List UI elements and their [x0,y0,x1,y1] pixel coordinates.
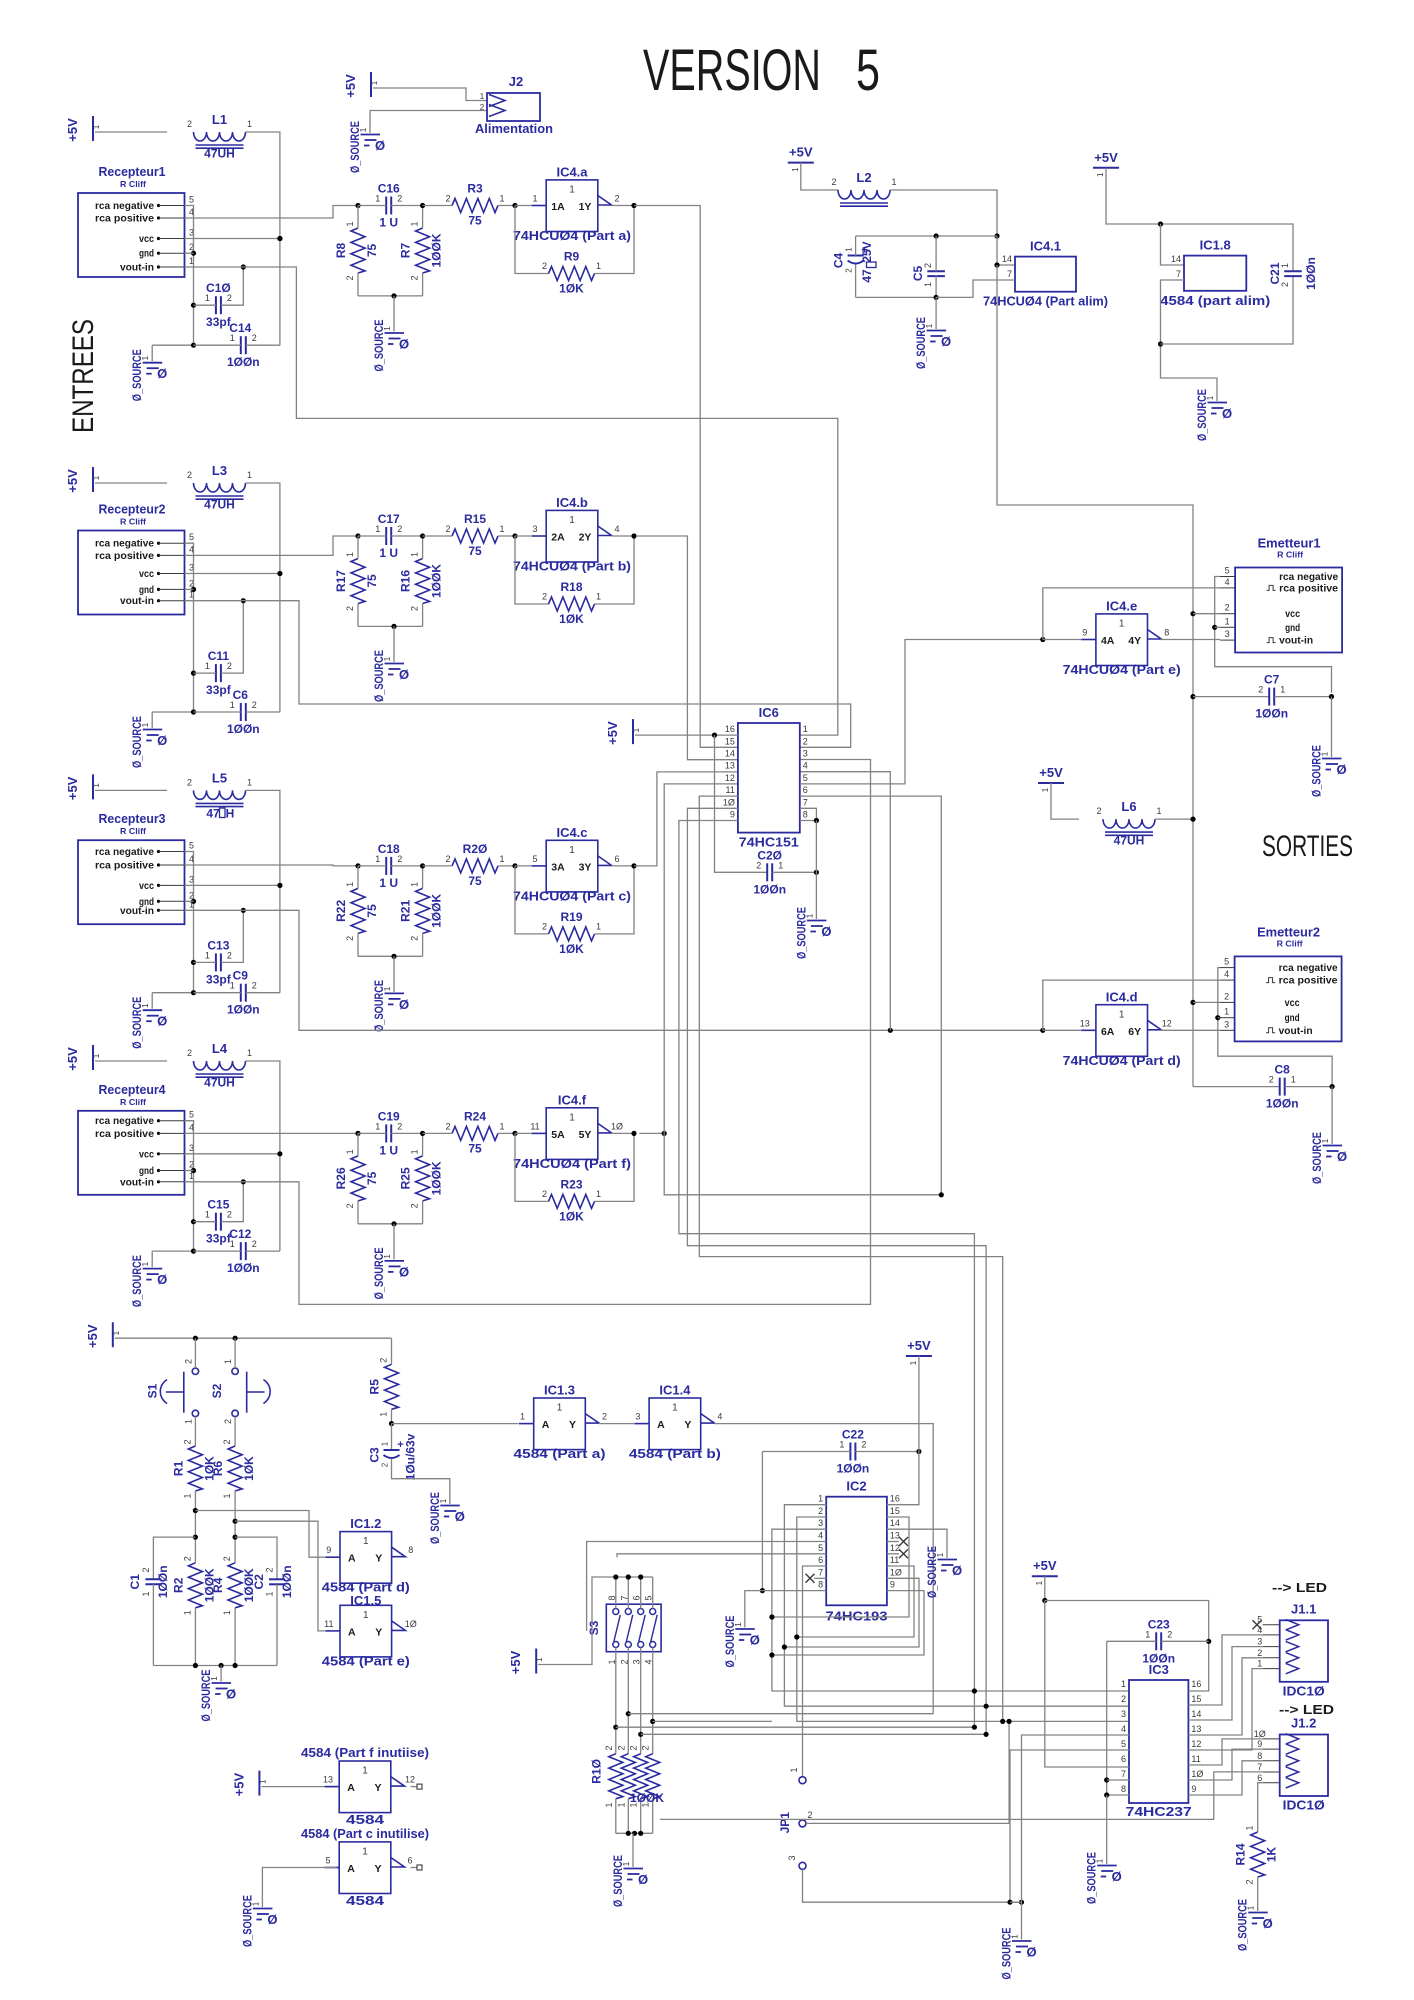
svg-text:1: 1 [891,177,896,187]
svg-text:1: 1 [182,1493,192,1498]
svg-text:74HCUØ4 (Part b): 74HCUØ4 (Part b) [513,560,631,574]
svg-text:6Y: 6Y [1128,1026,1141,1038]
svg-text:R2Ø: R2Ø [463,842,488,856]
svg-text:5: 5 [1225,566,1230,576]
svg-text:2: 2 [803,736,808,746]
svg-text:1 U: 1 U [379,216,398,230]
svg-text:Ø_SOURCE: Ø_SOURCE [611,1855,625,1907]
svg-text:VERSION: VERSION [643,38,821,103]
svg-text:Ø: Ø [226,1687,236,1702]
svg-text:2: 2 [345,1203,355,1208]
svg-text:C9: C9 [233,969,249,983]
svg-text:5: 5 [856,38,880,103]
svg-text:IC2: IC2 [846,1479,866,1494]
svg-text:S2: S2 [210,1383,224,1398]
svg-text:1: 1 [1119,619,1125,630]
svg-text:47UH: 47UH [204,147,235,161]
svg-text:2: 2 [265,1567,275,1572]
svg-text:1ØØn: 1ØØn [227,1261,260,1275]
svg-text:2: 2 [756,860,761,870]
svg-text:1: 1 [1224,1007,1229,1017]
svg-text:Ø: Ø [267,1912,277,1927]
svg-text:C8: C8 [1275,1063,1291,1077]
svg-text:6: 6 [818,1555,823,1565]
svg-text:IC4.f: IC4.f [558,1092,587,1107]
svg-text:1 U: 1 U [379,546,398,560]
svg-text:1: 1 [230,1239,235,1249]
svg-text:Y: Y [374,1863,381,1875]
svg-text:47: 47 [206,807,220,821]
svg-text:4584 (part alim): 4584 (part alim) [1160,293,1270,308]
svg-text:11: 11 [726,785,735,795]
svg-text:2A: 2A [551,532,565,544]
svg-text:Ø: Ø [1112,1869,1122,1884]
svg-text:1: 1 [1041,787,1050,792]
svg-text:IC4.d: IC4.d [1106,989,1138,1004]
svg-text:1ØØn: 1ØØn [280,1565,294,1598]
svg-text:R14: R14 [1234,1843,1248,1865]
svg-text:R19: R19 [560,910,582,924]
svg-text:5: 5 [189,1110,194,1120]
svg-text:1: 1 [345,552,355,557]
svg-text:Ø: Ø [638,1872,648,1887]
svg-text:2: 2 [614,194,619,204]
svg-text:4584: 4584 [346,1893,385,1908]
svg-text:2: 2 [222,1439,232,1444]
svg-text:rca negative: rca negative [95,538,154,550]
svg-text:2: 2 [445,854,450,864]
svg-text:J1.2: J1.2 [1291,1716,1316,1731]
svg-text:Y: Y [684,1419,691,1431]
svg-text:Ø: Ø [399,997,409,1012]
svg-text:4: 4 [717,1412,722,1422]
svg-text:R22: R22 [334,900,348,922]
svg-text:47UH: 47UH [204,1076,235,1090]
svg-text:13: 13 [725,761,735,771]
svg-text:1: 1 [632,727,641,732]
svg-text:3: 3 [818,1518,823,1528]
svg-text:74HCUØ4 (Part c): 74HCUØ4 (Part c) [513,889,631,903]
svg-text:2: 2 [227,950,232,960]
svg-text:Ø: Ø [157,733,167,748]
svg-text:1: 1 [247,777,252,787]
svg-text:2: 2 [629,1745,639,1750]
svg-text:3: 3 [803,749,808,759]
svg-text:1: 1 [205,293,210,303]
svg-text:8: 8 [1257,1751,1262,1761]
svg-text:13: 13 [323,1775,333,1785]
svg-text:Ø_SOURCE: Ø_SOURCE [372,320,386,372]
svg-text:1: 1 [362,1847,368,1858]
svg-text:2: 2 [410,606,420,611]
svg-text:vout-in: vout-in [1279,1025,1313,1037]
svg-text:IC1.4: IC1.4 [659,1383,691,1398]
svg-text:1ØK: 1ØK [242,1456,256,1481]
svg-text:IC6: IC6 [759,705,779,720]
svg-text:74HCUØ4 (Part d): 74HCUØ4 (Part d) [1063,1054,1181,1068]
svg-text:1: 1 [1156,806,1161,816]
svg-text:12: 12 [1191,1739,1201,1749]
svg-text:16: 16 [725,724,735,734]
svg-text:rca positive: rca positive [95,860,154,872]
svg-text:rca positive: rca positive [1279,582,1338,594]
svg-text:Ø: Ø [1263,1916,1273,1931]
svg-text:1ØØn: 1ØØn [1266,1097,1299,1111]
svg-text:7: 7 [818,1567,823,1577]
svg-text:R1Ø: R1Ø [590,1759,604,1784]
svg-text:2: 2 [187,1048,192,1058]
svg-text:2: 2 [1167,1629,1172,1639]
svg-text:Recepteur3: Recepteur3 [99,811,166,826]
svg-text:Ø_SOURCE: Ø_SOURCE [1000,1928,1014,1980]
svg-text:2: 2 [187,119,192,129]
svg-text:1: 1 [363,1610,369,1621]
svg-text:1: 1 [596,1189,601,1199]
svg-text:75: 75 [365,904,379,918]
svg-text:2: 2 [397,854,402,864]
svg-text:74HCUØ4 (Part f): 74HCUØ4 (Part f) [513,1157,631,1171]
svg-text:A: A [348,1553,356,1565]
svg-text:1: 1 [182,1610,192,1615]
svg-text:1: 1 [205,950,210,960]
svg-text:R2: R2 [171,1577,185,1593]
svg-text:8: 8 [818,1580,823,1590]
svg-text:J1.1: J1.1 [1291,1601,1316,1616]
svg-text:2: 2 [616,1745,626,1750]
svg-text:rca positive: rca positive [1279,975,1338,987]
svg-text:2: 2 [345,606,355,611]
svg-text:3: 3 [635,1412,640,1422]
svg-text:R Cliff: R Cliff [1277,550,1303,560]
svg-text:A: A [657,1419,665,1431]
svg-text:1: 1 [375,194,380,204]
svg-text:1: 1 [596,261,601,271]
svg-text:75: 75 [365,574,379,588]
svg-text:1: 1 [370,80,379,85]
svg-text:1: 1 [230,333,235,343]
svg-text:Ø_SOURCE: Ø_SOURCE [1195,389,1209,441]
svg-text:2: 2 [542,592,547,602]
svg-text:2: 2 [923,263,933,268]
svg-text:1: 1 [909,1360,918,1365]
svg-text:rca negative: rca negative [95,200,154,212]
svg-text:+5V: +5V [65,469,80,493]
svg-text:7: 7 [1176,269,1181,279]
svg-text:IC4.c: IC4.c [556,825,587,840]
svg-text:1: 1 [1119,1009,1125,1020]
svg-text:7: 7 [1121,1769,1126,1779]
svg-text:74HC193: 74HC193 [826,1608,888,1623]
svg-text:2: 2 [1258,685,1263,695]
svg-text:Recepteur2: Recepteur2 [99,502,166,517]
svg-text:1: 1 [381,1441,390,1446]
svg-text:L3: L3 [212,463,227,478]
svg-text:1ØØK: 1ØØK [430,1161,444,1195]
svg-text:Ø_SOURCE: Ø_SOURCE [1236,1899,1250,1951]
svg-text:1: 1 [410,882,420,887]
svg-text:Ø_SOURCE: Ø_SOURCE [372,1247,386,1299]
svg-text:2: 2 [223,1419,233,1424]
svg-text:A: A [348,1626,356,1638]
svg-text:Ø_SOURCE: Ø_SOURCE [199,1670,213,1722]
svg-text:1: 1 [183,1419,193,1424]
svg-text:9: 9 [890,1580,895,1590]
svg-text:Ø_SOURCE: Ø_SOURCE [130,716,144,768]
svg-text:Ø_SOURCE: Ø_SOURCE [130,997,144,1049]
svg-text:1: 1 [230,700,235,710]
svg-text:R8: R8 [334,243,348,259]
svg-text:vout-in: vout-in [120,262,154,274]
svg-text:SORTIES: SORTIES [1262,830,1353,863]
svg-text:vout-in: vout-in [120,905,154,917]
svg-text:6: 6 [1257,1773,1262,1783]
svg-text:4: 4 [803,761,808,771]
svg-text:1ØØn: 1ØØn [753,882,786,896]
svg-text:L2: L2 [856,170,871,185]
svg-text:1: 1 [363,1536,369,1547]
svg-text:1A: 1A [551,201,565,213]
svg-text:1: 1 [92,783,101,788]
svg-text:C2: C2 [252,1574,266,1590]
svg-text:IC4.1: IC4.1 [1030,239,1061,254]
svg-text:1ØØn: 1ØØn [227,722,260,736]
svg-text:1: 1 [112,1330,121,1335]
svg-text:2: 2 [604,1745,614,1750]
svg-text:Ø: Ø [821,924,831,939]
svg-text:2: 2 [410,1203,420,1208]
svg-text:2: 2 [182,1556,192,1561]
svg-text:1: 1 [1245,1825,1255,1830]
svg-text:1: 1 [1035,1580,1044,1585]
svg-text:1: 1 [230,981,235,991]
svg-text:3Y: 3Y [579,861,592,873]
svg-text:1Ø: 1Ø [405,1619,417,1629]
svg-text:1ØØn: 1ØØn [837,1462,870,1476]
svg-text:1: 1 [205,661,210,671]
svg-text:5: 5 [189,841,194,851]
svg-text:gnd: gnd [1285,1012,1300,1024]
svg-text:R Cliff: R Cliff [120,179,146,189]
svg-text:1: 1 [1145,1629,1150,1639]
svg-text:75: 75 [365,244,379,258]
svg-text:R Cliff: R Cliff [120,517,146,527]
svg-text:3: 3 [1257,1637,1262,1647]
svg-text:15: 15 [1191,1694,1201,1704]
svg-text:9: 9 [730,810,735,820]
svg-text:2: 2 [397,1121,402,1131]
svg-text:1: 1 [1280,685,1285,695]
svg-text:S3: S3 [587,1620,601,1635]
svg-text:1: 1 [596,921,601,931]
svg-text:1: 1 [569,1112,575,1123]
svg-text:12: 12 [405,1775,415,1785]
svg-text:33pf: 33pf [206,683,232,697]
svg-text:1: 1 [778,860,783,870]
svg-text:+5V: +5V [605,721,620,745]
svg-text:IC4.e: IC4.e [1106,599,1137,614]
svg-text:Alimentation: Alimentation [475,121,553,136]
svg-text:1Ø: 1Ø [1254,1729,1266,1739]
svg-text:4584 (Part a): 4584 (Part a) [514,1447,606,1461]
svg-text:JP1: JP1 [778,1812,792,1834]
svg-text:3: 3 [787,1855,797,1860]
svg-text:1: 1 [499,854,504,864]
svg-text:2: 2 [445,194,450,204]
svg-text:1: 1 [803,724,808,734]
svg-text:1: 1 [604,1802,614,1807]
svg-text:1: 1 [596,592,601,602]
svg-text:1: 1 [480,92,485,101]
svg-text:8: 8 [1121,1784,1126,1794]
svg-text:Ø: Ø [455,1509,465,1524]
svg-text:J2: J2 [509,74,523,89]
svg-text:2: 2 [542,921,547,931]
svg-text:Ø_SOURCE: Ø_SOURCE [428,1492,442,1544]
svg-text:Ø: Ø [399,667,409,682]
svg-text:14: 14 [1171,254,1181,264]
svg-text:Ø_SOURCE: Ø_SOURCE [1310,1132,1324,1184]
svg-text:R6: R6 [211,1461,225,1477]
svg-text:Ø: Ø [375,138,385,153]
svg-text:2: 2 [831,177,836,187]
svg-text:1: 1 [345,882,355,887]
svg-text:R15: R15 [464,512,486,526]
svg-text:2: 2 [252,1239,257,1249]
svg-text:9: 9 [1191,1784,1196,1794]
svg-text:14: 14 [1002,254,1012,264]
svg-text:2: 2 [227,1210,232,1220]
svg-text:75: 75 [468,214,482,228]
svg-text:vcc: vcc [139,1148,154,1160]
svg-text:2: 2 [183,1359,193,1364]
svg-text:4584 (Part f inutiise): 4584 (Part f inutiise) [301,1745,429,1760]
svg-text:2: 2 [187,470,192,480]
svg-text:1: 1 [839,1440,844,1450]
svg-text:5A: 5A [551,1129,565,1141]
svg-text:R7: R7 [399,243,413,259]
svg-text:vout-in: vout-in [1279,635,1313,647]
svg-text:1: 1 [1121,1679,1126,1689]
svg-text:Ø_SOURCE: Ø_SOURCE [1085,1852,1099,1904]
svg-text:1: 1 [247,119,252,129]
svg-text:rca negative: rca negative [95,1115,154,1127]
svg-text:1ØØn: 1ØØn [1142,1651,1175,1665]
svg-text:11: 11 [1191,1754,1200,1764]
svg-text:2: 2 [397,194,402,204]
svg-text:R3: R3 [467,182,483,196]
svg-text:+5V: +5V [508,1650,523,1674]
svg-text:1ØK: 1ØK [559,282,584,296]
svg-text:13: 13 [1080,1018,1090,1028]
svg-text:2: 2 [1121,1694,1126,1704]
svg-text:4: 4 [1225,577,1230,587]
svg-text:1Ø: 1Ø [890,1567,902,1577]
svg-text:1ØØn: 1ØØn [156,1565,170,1598]
svg-text:2: 2 [1257,1648,1262,1658]
svg-text:2: 2 [381,1462,390,1467]
svg-text:Ø: Ø [952,1563,962,1578]
svg-text:Ø_SOURCE: Ø_SOURCE [240,1895,254,1947]
svg-text:ENTREES: ENTREES [67,319,100,433]
svg-text:C7: C7 [1264,673,1280,687]
svg-text:4584 (Part c inutilise): 4584 (Part c inutilise) [301,1826,429,1841]
svg-text:1 U: 1 U [379,876,398,890]
svg-text:+5V: +5V [1039,765,1063,780]
svg-text:12: 12 [890,1543,900,1553]
svg-text:74HC237: 74HC237 [1126,1804,1192,1819]
svg-text:1K: 1K [1265,1846,1279,1862]
svg-text:Ø: Ø [399,337,409,352]
svg-text:11: 11 [530,1121,539,1131]
svg-text:1: 1 [410,552,420,557]
svg-text:Ø_SOURCE: Ø_SOURCE [130,349,144,401]
svg-text:gnd: gnd [139,1165,154,1177]
svg-text:R25: R25 [399,1167,413,1189]
svg-text:1ØK: 1ØK [559,1209,584,1223]
svg-text:C3: C3 [368,1447,382,1463]
svg-text:14: 14 [890,1518,900,1528]
svg-text:vcc: vcc [1285,997,1300,1009]
svg-text:5: 5 [818,1543,823,1553]
svg-text:1: 1 [247,1048,252,1058]
svg-text:gnd: gnd [139,248,154,260]
svg-text:13: 13 [1191,1724,1201,1734]
svg-text:1: 1 [205,1210,210,1220]
svg-text:1: 1 [818,1494,823,1504]
svg-text:2: 2 [252,700,257,710]
svg-text:Ø: Ø [1336,762,1346,777]
svg-text:4: 4 [1224,969,1229,979]
svg-text:IC1.3: IC1.3 [544,1383,575,1398]
svg-text:1ØØK: 1ØØK [630,1791,664,1805]
svg-text:L5: L5 [212,770,227,785]
svg-text:2: 2 [1245,1879,1255,1884]
svg-text:R17: R17 [334,570,348,592]
svg-text:1Y: 1Y [579,201,592,213]
svg-text:3: 3 [1225,629,1230,639]
svg-text:1: 1 [791,167,800,172]
svg-text:IDC1Ø: IDC1Ø [1283,1683,1325,1698]
svg-text:rca negative: rca negative [95,846,154,858]
svg-text:1: 1 [141,1591,151,1596]
svg-text:+5V: +5V [1033,1558,1057,1573]
svg-text:1: 1 [375,854,380,864]
svg-text:33pf: 33pf [206,972,232,986]
svg-text:+5V: +5V [65,1047,80,1071]
svg-text:1: 1 [557,1403,563,1414]
svg-text:2: 2 [252,333,257,343]
svg-text:74HCUØ4 (Part alim): 74HCUØ4 (Part alim) [983,294,1108,309]
svg-text:Ø: Ø [157,1014,167,1029]
svg-text:2: 2 [641,1745,651,1750]
svg-text:5: 5 [325,1856,330,1866]
svg-text:R5: R5 [368,1379,382,1395]
svg-text:C4: C4 [832,253,846,269]
svg-text:47UH: 47UH [204,498,235,512]
svg-text:9: 9 [1257,1739,1262,1749]
svg-text:2: 2 [345,936,355,941]
svg-text:1ØØn: 1ØØn [227,355,260,369]
svg-text:13: 13 [890,1531,900,1541]
svg-text:R9: R9 [564,250,580,264]
svg-text:6: 6 [407,1856,412,1866]
svg-text:Ø: Ø [1026,1945,1036,1960]
svg-text:H: H [226,807,235,821]
svg-text:vout-in: vout-in [120,1176,154,1188]
svg-text:Ø_SOURCE: Ø_SOURCE [914,317,928,369]
svg-text:2: 2 [861,1440,866,1450]
svg-text:2: 2 [1269,1075,1274,1085]
